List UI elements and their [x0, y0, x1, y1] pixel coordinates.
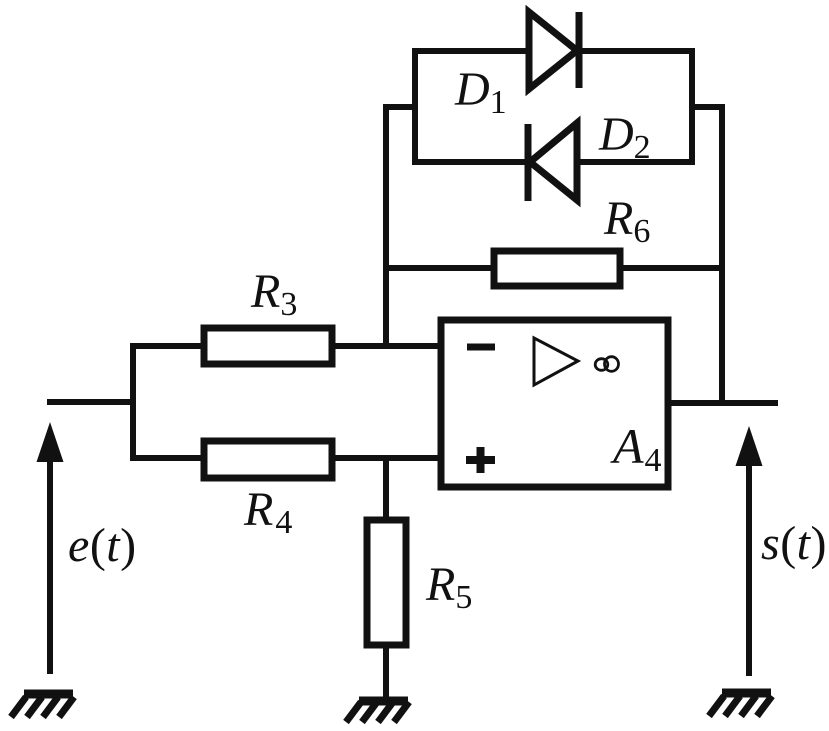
op-amp U1 (A4) box	[441, 320, 668, 487]
diode D1	[529, 12, 579, 89]
resistor R4	[204, 441, 332, 478]
wire R6 right	[620, 265, 725, 271]
wire diode loop left vertical	[412, 48, 418, 165]
ground (left, e(t))	[11, 694, 74, 717]
wire op-amp output	[668, 400, 778, 406]
wire R3 left	[130, 343, 204, 349]
wire node A vertical (R3 node up to diode loop)	[383, 107, 389, 349]
wire diode loop bottom right (D2 anode)	[577, 159, 695, 165]
ground (right, s(t))	[709, 693, 772, 716]
wire stub to diode loop left	[383, 104, 418, 110]
wire R3 right to op-amp minus input	[332, 343, 444, 349]
wire diode loop top right (D1 cathode)	[579, 48, 695, 54]
wire diode loop top left (D1 anode)	[412, 48, 531, 54]
op-amp minus input sign	[467, 344, 495, 351]
resistor R6	[494, 251, 620, 286]
wire R6 left	[383, 265, 494, 271]
wire diode loop bottom left (D2 cathode)	[412, 159, 528, 165]
op-amp infinity symbol	[595, 357, 618, 372]
wire feedback right vertical	[719, 104, 725, 406]
arrow e(t) source	[37, 422, 64, 674]
arrow s(t) output	[736, 426, 763, 676]
diode D2	[528, 123, 577, 201]
op-amp gain triangle	[534, 338, 578, 385]
wire R5 to ground	[383, 645, 389, 699]
op-amp plus input sign	[466, 447, 495, 473]
wire stub diode loop right	[689, 104, 725, 110]
wire diode loop right vertical	[689, 48, 695, 165]
svg-text:s(t): s(t)	[761, 517, 827, 570]
resistor R5	[367, 520, 406, 645]
wire input stub	[47, 399, 133, 405]
resistor R3	[204, 328, 332, 364]
ground (middle, R5)	[346, 701, 409, 722]
wire R5 branch vertical	[383, 455, 389, 520]
wire R4 left	[130, 455, 204, 461]
wire R4 right to op-amp plus input	[332, 455, 444, 461]
svg-text:e(t): e(t)	[68, 519, 137, 572]
wire left bus vertical	[130, 343, 136, 461]
